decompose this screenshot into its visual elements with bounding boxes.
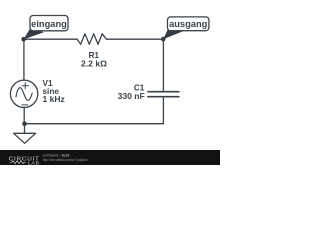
svg-text:2.2 kΩ: 2.2 kΩ	[81, 59, 107, 69]
svg-text:eingang: eingang	[31, 19, 67, 29]
flag ausgang box	[168, 17, 209, 31]
V1 sine symbol	[16, 88, 32, 101]
wire ground stub	[24, 124, 26, 134]
capacitor C1	[148, 92, 179, 97]
footer bar	[0, 150, 220, 165]
wire right branch lower	[162, 97, 164, 124]
node eingang junction dot	[21, 37, 26, 42]
svg-text:http://circuitlab.com/crr7yq3a: http://circuitlab.com/crr7yq3ace	[43, 158, 88, 162]
node ausgang junction dot	[161, 37, 166, 42]
wire bottom rail	[24, 123, 163, 125]
resistor R1	[77, 34, 106, 45]
svg-text:ausgang: ausgang	[169, 19, 208, 29]
ground	[14, 133, 36, 143]
flag eingang box	[30, 16, 68, 31]
flag eingang tail	[24, 29, 44, 40]
wire top rail right segment	[106, 38, 163, 40]
V1 minus sign	[22, 104, 28, 106]
flag ausgang tail	[163, 28, 183, 39]
wire source bottom	[23, 108, 25, 124]
wire right branch upper	[162, 39, 164, 91]
wire top rail left segment	[24, 38, 78, 40]
svg-text:330 nF: 330 nF	[118, 91, 145, 101]
svg-text:1 kHz: 1 kHz	[43, 94, 65, 104]
wire left branch	[23, 39, 25, 80]
voltage source V1	[10, 80, 37, 107]
svg-text:LAB: LAB	[28, 160, 40, 165]
node ground junction dot	[22, 121, 27, 126]
logo resistor squiggle	[10, 161, 26, 164]
V1 plus sign	[22, 83, 28, 89]
